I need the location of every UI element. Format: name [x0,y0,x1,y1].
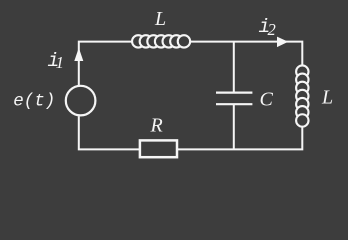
svg-text:1: 1 [56,53,65,72]
svg-text:R: R [150,115,163,137]
svg-text:L: L [154,8,166,30]
svg-text:C: C [260,89,274,111]
svg-text:e(t): e(t) [13,92,55,112]
svg-text:2: 2 [268,20,276,39]
svg-text:L: L [321,87,333,109]
